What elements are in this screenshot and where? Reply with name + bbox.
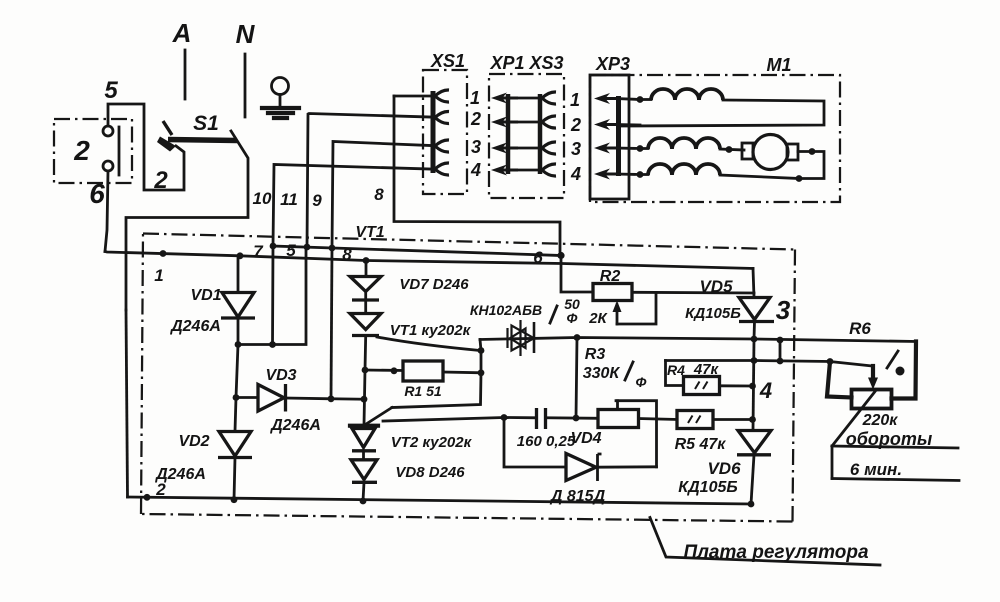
svg-text:5: 5: [104, 77, 118, 104]
label D246A VD3: [269, 417, 321, 434]
label VT1 KU202K: [390, 322, 472, 339]
svg-text:47к: 47к: [693, 361, 720, 378]
label VD5: [699, 277, 733, 296]
svg-text:1: 1: [154, 266, 163, 285]
wire winding1 to corner: [621, 100, 824, 126]
wire N input: [244, 54, 247, 117]
pin numbers XP3 column: [570, 90, 581, 184]
pin numbers XS1: [470, 88, 481, 180]
node dots wire1-wire2 link: [777, 337, 784, 365]
label 4: [759, 378, 772, 403]
wire 1 anode bus: [480, 338, 916, 342]
label VD8 D246: [395, 464, 465, 481]
board outline top edge: [143, 234, 795, 250]
label 2 bottom: [155, 480, 166, 499]
board outline left edge: [141, 234, 143, 515]
node dot right brush: [809, 148, 816, 155]
wire winding3 to armature return: [720, 175, 799, 179]
label R5 47k: [675, 436, 727, 453]
switch S1: [163, 121, 237, 141]
connector XP1 XS3: [489, 74, 564, 198]
label 50: [564, 296, 580, 312]
label KD105B VD5: [685, 305, 741, 322]
label 2 under switch: [153, 167, 168, 194]
label 1: [154, 266, 163, 285]
resistor R1: [365, 361, 481, 381]
node dot VD1 mid: [235, 341, 242, 348]
node dot busB left: [160, 250, 167, 257]
wire terminal5 to switch: [108, 104, 184, 190]
XP1 pin 1: [491, 92, 556, 104]
node A: [172, 18, 192, 48]
node dot pin4: [637, 171, 644, 178]
dinistor VS1 KN102: [508, 320, 535, 356]
svg-text:VD6: VD6: [707, 459, 741, 478]
svg-text:M1: M1: [766, 55, 791, 75]
svg-text:A: A: [172, 18, 192, 48]
diode VD4 zener: [504, 418, 657, 482]
node dot wire2 vd6: [751, 357, 758, 364]
wire 10 lower: [271, 246, 274, 345]
diode VD6: [737, 431, 771, 505]
svg-text:R3: R3: [585, 346, 606, 363]
resistor R4: [666, 361, 753, 395]
node dot wire11/busA: [304, 244, 311, 251]
field winding L3: [640, 164, 720, 175]
node dot VD5 cathode wire1: [751, 336, 758, 343]
svg-text:6 мин.: 6 мин.: [850, 460, 902, 479]
label VD7 D246: [399, 276, 469, 293]
label KN102ABV: [470, 302, 557, 323]
node dot armature return: [796, 175, 803, 182]
bottom bus wire: [128, 497, 752, 504]
svg-text:S1: S1: [193, 112, 219, 135]
label D246A VD1: [169, 318, 221, 335]
svg-text:Ф: Ф: [567, 310, 578, 326]
wire busB to VD5: [753, 269, 754, 298]
node dot R6 left: [827, 358, 834, 365]
label VD6: [707, 459, 741, 478]
label VD4: [570, 430, 601, 447]
XS1 fork pin 1: [435, 90, 449, 102]
label D815D: [549, 488, 606, 505]
board outline right edge: [793, 250, 796, 522]
svg-text:7: 7: [253, 242, 264, 261]
svg-text:R4: R4: [667, 362, 685, 378]
wire VT1 cathode down: [364, 370, 365, 425]
XP1 pin 4: [491, 164, 556, 176]
wire switch lower segment: [126, 310, 128, 497]
svg-text:R5 47к: R5 47к: [675, 436, 727, 453]
XS1 fork pin 2: [435, 111, 449, 123]
svg-text:Ф: Ф: [636, 374, 647, 390]
svg-text:1: 1: [570, 90, 580, 110]
node N: [236, 19, 256, 49]
svg-text:6: 6: [89, 178, 105, 209]
svg-text:R6: R6: [849, 319, 871, 338]
svg-text:VD5: VD5: [699, 277, 733, 296]
label 8 busA: [342, 245, 352, 264]
XP3 pin 1: [594, 93, 640, 104]
diode VD5: [739, 298, 774, 340]
svg-text:XS1: XS1: [430, 51, 465, 71]
label R4 47k: [667, 361, 719, 378]
adjust mark 1.: [887, 351, 905, 376]
label Plata regulyatora with leader: [650, 518, 880, 566]
label R3: [585, 346, 606, 363]
wire 9 lower to VD3 cathode: [331, 248, 332, 399]
svg-text:2: 2: [570, 115, 581, 135]
svg-text:VD8 D246: VD8 D246: [395, 464, 465, 481]
XP1 pin 3: [491, 142, 556, 154]
wire to left brush: [720, 149, 744, 150]
svg-text:VT1: VT1: [355, 224, 384, 241]
wire switch to bottom bus: [126, 131, 248, 310]
label S1: [193, 112, 219, 135]
svg-text:2К: 2К: [588, 310, 608, 327]
diode VD7: [350, 261, 381, 314]
label 2K: [588, 310, 608, 327]
wire 9 (to XS1 pin3): [332, 142, 430, 249]
svg-text:4: 4: [759, 378, 772, 403]
label R2: [600, 268, 621, 285]
svg-text:VD1: VD1: [190, 287, 221, 304]
wire right brush to corner: [798, 152, 824, 179]
svg-text:VD7 D246: VD7 D246: [399, 276, 469, 293]
svg-text:VD2: VD2: [178, 433, 209, 450]
diode VD2: [218, 432, 252, 500]
svg-text:220к: 220к: [862, 412, 899, 429]
node dot wire9/busA: [329, 245, 336, 252]
svg-text:11: 11: [280, 190, 298, 209]
label 10: [253, 189, 272, 208]
thyristor VT2: [350, 426, 378, 460]
connector XS1: [423, 70, 467, 194]
svg-text:160 0,25: 160 0,25: [517, 433, 576, 450]
label 5: [104, 77, 118, 104]
node dot before armature: [726, 146, 733, 153]
wire VD1 to VD3 to VD2: [235, 345, 238, 432]
label XP1 XS3: [489, 53, 563, 73]
node dot R1 right: [478, 369, 485, 376]
svg-text:Д246А: Д246А: [269, 417, 321, 434]
svg-text:Д246А: Д246А: [169, 318, 221, 335]
node dot R4 right: [749, 383, 756, 390]
svg-text:N: N: [236, 19, 256, 49]
node dot VD3 cathode: [328, 395, 335, 402]
svg-text:3: 3: [471, 137, 481, 157]
wire A input: [184, 50, 187, 99]
label M1: [766, 55, 791, 75]
wire R6 right leg: [892, 342, 917, 399]
node 6 dot: [557, 252, 564, 259]
label 3: [776, 295, 791, 325]
label 2 in plug box: [73, 135, 90, 166]
label KD105B VD6: [678, 479, 737, 496]
bus A wire: [273, 246, 561, 256]
node dot busB VD7: [363, 257, 370, 264]
XS1 fork pin 3: [435, 140, 449, 152]
label XP3: [595, 54, 630, 74]
label D246A VD2: [154, 466, 206, 483]
node dot R1 left: [391, 367, 398, 374]
svg-text:4: 4: [470, 160, 481, 180]
XP1 pin 2: [491, 116, 556, 128]
label VD2: [178, 433, 209, 450]
label 6: [533, 248, 543, 267]
label XS1: [430, 51, 465, 71]
wire VD1 mid junction: [238, 247, 306, 345]
XP3 pin 4: [594, 169, 640, 180]
field winding L1: [640, 89, 723, 100]
label R6: [849, 319, 871, 338]
node dot bottom left: [144, 494, 151, 501]
label 6: [89, 178, 105, 209]
svg-text:1: 1: [470, 88, 480, 108]
node dot R1 right gate: [478, 347, 485, 354]
node dot RC junction: [573, 415, 580, 422]
wire gate chain vertical: [392, 340, 481, 408]
XP3 pin 3: [594, 143, 640, 154]
svg-text:10: 10: [253, 189, 272, 208]
wire VD5 chain vertical: [753, 339, 754, 430]
label 9: [312, 191, 322, 210]
resistor R5: [677, 411, 753, 429]
svg-text:XP3: XP3: [595, 54, 630, 74]
node dot VT1 cathode: [362, 367, 369, 374]
label F: [567, 310, 578, 326]
node dot VD3 anode: [233, 394, 240, 401]
svg-text:Д246А: Д246А: [154, 466, 206, 483]
node dot pin3: [637, 145, 644, 152]
wire R2 feed: [561, 256, 593, 293]
wire 8 (XS1 pin1 to node 6): [394, 96, 561, 256]
label 6 min: [850, 460, 902, 479]
wire 10 (to XS1 pin4): [273, 165, 430, 247]
svg-text:КД105Б: КД105Б: [678, 479, 737, 496]
field winding L2: [640, 138, 720, 149]
node dot VD2 bottom: [231, 496, 238, 503]
diode VD8: [351, 460, 377, 501]
potentiometer R6: [830, 362, 892, 409]
node dot VD3 to VT line: [361, 396, 368, 403]
svg-text:3: 3: [776, 295, 791, 325]
XP3 pin 2: [594, 119, 640, 130]
motor armature M1: [742, 135, 798, 170]
label 7: [253, 242, 264, 261]
svg-text:4: 4: [570, 164, 581, 184]
terminal 5 contact: [103, 126, 113, 136]
node dot pin1: [637, 96, 644, 103]
XS1 fork pin 4: [435, 163, 449, 175]
label VD3: [265, 367, 296, 384]
svg-text:КД105Б: КД105Б: [685, 305, 741, 322]
svg-text:330К: 330К: [583, 365, 621, 382]
motor unit M1 box: [590, 75, 840, 202]
node dot R3 top: [574, 334, 581, 341]
wire 2: [666, 361, 831, 362]
label oboroty: [846, 429, 933, 449]
contact bar: [118, 127, 121, 175]
label 160 0,25: [517, 433, 576, 450]
wire 11 (to XS1 pin2): [307, 114, 430, 248]
connector XP3: [590, 75, 629, 199]
svg-text:КН102АБВ: КН102АБВ: [470, 302, 542, 318]
svg-text:Плата регулятора: Плата регулятора: [683, 542, 869, 563]
svg-text:2: 2: [153, 167, 168, 194]
node dot cap VD4: [501, 414, 508, 421]
thyristor VT1: [350, 314, 480, 371]
svg-text:2: 2: [73, 135, 90, 166]
svg-text:2: 2: [470, 109, 481, 129]
diode VD3: [236, 384, 331, 412]
label 11: [280, 190, 298, 209]
capacitor C1: [383, 408, 598, 429]
svg-text:R2: R2: [600, 268, 621, 285]
svg-text:8: 8: [374, 185, 384, 204]
svg-text:R1 51: R1 51: [404, 383, 442, 399]
switch S1 arrow contact: [157, 137, 176, 152]
bus B wire: [105, 252, 753, 269]
wire terminal6 down: [105, 171, 108, 252]
label 330K: [583, 362, 647, 390]
label VT2 KU202K: [391, 434, 473, 451]
label R1 51: [404, 383, 442, 399]
wire VD3 junction to VT1 line: [331, 397, 364, 400]
underline oboroty: [832, 446, 958, 448]
label VT1 top: [355, 224, 384, 241]
svg-text:VD4: VD4: [570, 430, 601, 447]
svg-text:XP1 XS3: XP1 XS3: [489, 53, 563, 73]
svg-text:Д 815Д: Д 815Д: [549, 488, 606, 505]
node dot wire10 end: [269, 341, 276, 348]
wire R3 right to R5: [639, 419, 678, 420]
connector plug X (terminal box): [54, 119, 132, 183]
board outline bottom edge: [141, 514, 793, 522]
node dot wire10/busA: [270, 243, 277, 250]
wire R6 left leg: [827, 362, 852, 398]
svg-text:VT1 ку202к: VT1 ку202к: [390, 322, 472, 339]
terminal 6 contact: [103, 161, 113, 171]
svg-text:3: 3: [571, 139, 581, 159]
underline 6 min with bracket: [832, 446, 959, 481]
resistor R2 trimmer: [593, 284, 754, 325]
ground: [262, 78, 299, 119]
diode VD1: [221, 256, 255, 345]
label 8: [374, 185, 384, 204]
node dot VD6 bottom: [748, 501, 755, 508]
wire diagonal to VT2 gate: [363, 408, 392, 427]
node dot busB VD1: [237, 252, 244, 259]
svg-text:9: 9: [312, 191, 322, 210]
label 5: [286, 241, 296, 260]
label VD1: [190, 287, 221, 304]
resistor R3 variable: [576, 338, 657, 467]
node dot R5 right: [749, 416, 756, 423]
node dot VD8 bottom: [360, 498, 367, 505]
label 220k with leader: [832, 392, 898, 447]
svg-text:VT2 ку202к: VT2 ку202к: [391, 434, 473, 451]
svg-text:VD3: VD3: [265, 367, 296, 384]
